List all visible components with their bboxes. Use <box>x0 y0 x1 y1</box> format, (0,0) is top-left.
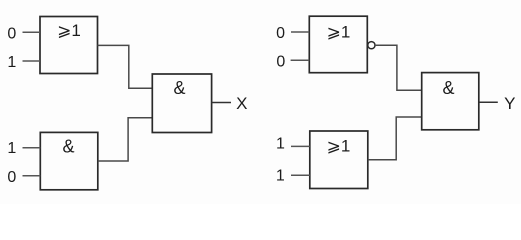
wire U3 output <box>212 102 231 104</box>
svg-text:Y: Y <box>504 94 515 113</box>
svg-text:⩾1: ⩾1 <box>327 23 351 42</box>
svg-text:0: 0 <box>276 25 285 42</box>
wire U6 output <box>479 101 498 103</box>
AND gate U3 box (left output) <box>152 74 211 133</box>
svg-text:0: 0 <box>276 53 285 70</box>
wire U4 output to U6 input a <box>375 45 422 90</box>
svg-text:1: 1 <box>7 54 16 71</box>
AND gate U2 box (left bottom) <box>40 132 98 189</box>
NOR gate U4 box (right top) <box>309 16 367 72</box>
wire stub U1 input a <box>23 31 41 33</box>
wire U2 output to U3 input b <box>98 118 153 161</box>
wire U1 output to U3 input a <box>98 45 153 88</box>
OR gate U5 box (right bottom) <box>310 131 368 189</box>
svg-text:&: & <box>442 78 454 98</box>
svg-text:&: & <box>62 136 74 156</box>
wire stub U4 input a <box>291 31 309 33</box>
svg-text:&: & <box>173 78 185 98</box>
wire stub U2 input b <box>23 175 41 177</box>
svg-text:⩾1: ⩾1 <box>327 137 351 156</box>
wire stub U5 input b <box>291 174 310 176</box>
svg-text:⩾1: ⩾1 <box>57 21 81 40</box>
svg-text:0: 0 <box>7 169 16 186</box>
wire stub U2 input a <box>23 147 41 149</box>
svg-text:1: 1 <box>7 140 16 157</box>
AND gate U6 box (right output) <box>422 73 479 130</box>
svg-text:1: 1 <box>276 135 285 152</box>
svg-text:0: 0 <box>7 26 16 43</box>
svg-text:1: 1 <box>276 168 285 185</box>
wire stub U4 input b <box>291 59 310 61</box>
NOR gate U4 inversion bubble <box>368 42 375 49</box>
wire U5 output to U6 input b <box>368 117 422 160</box>
svg-text:X: X <box>236 94 247 113</box>
wire stub U5 input a <box>291 145 310 147</box>
OR gate U1 box (left top) <box>40 17 98 74</box>
wire stub U1 input b <box>23 60 41 62</box>
